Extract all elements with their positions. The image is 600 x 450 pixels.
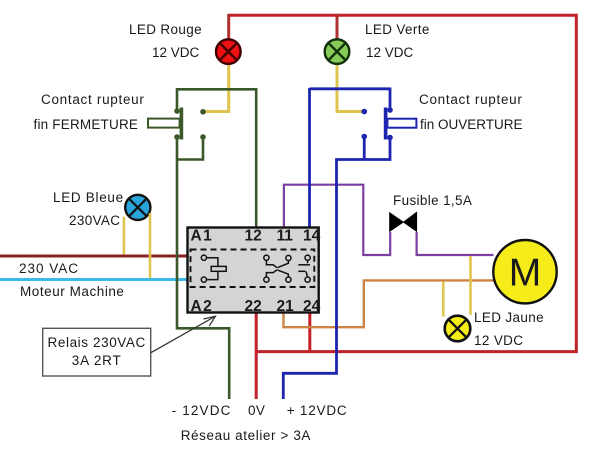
- LED Rouge (red indicator lamp): [216, 39, 241, 64]
- svg-text:LED Verte: LED Verte: [365, 22, 430, 37]
- wire: orange from relay pin 21 to motor: [284, 280, 495, 327]
- wire: blue left leg down to relay pin 14: [308, 88, 311, 228]
- wire: cyan motor neutral line: [0, 278, 188, 281]
- wire: red from relay pin 22 to 0V terminal: [255, 313, 258, 400]
- svg-text:A2: A2: [191, 298, 214, 315]
- switch S1 fin FERMETURE: green wiring box: [177, 88, 256, 228]
- wire: blue leg down to +12VDC terminal: [283, 160, 364, 400]
- svg-text:12 VDC: 12 VDC: [366, 45, 414, 60]
- wire: red stub to LED Verte: [336, 14, 339, 39]
- LED Verte (green indicator lamp): [325, 39, 350, 64]
- LED Jaune (yellow indicator lamp): [445, 316, 471, 342]
- svg-text:LED Jaune: LED Jaune: [474, 310, 544, 325]
- wire: blue right leg to top contact: [389, 88, 392, 111]
- svg-text:A1: A1: [191, 227, 214, 244]
- svg-text:12: 12: [245, 227, 262, 244]
- relay auxiliary contact: [298, 255, 310, 282]
- svg-text:Contact rupteur: Contact rupteur: [41, 92, 145, 107]
- wire: yellow LED Bleue to neutral line: [149, 213, 152, 278]
- wire: red stub to LED Rouge: [227, 14, 230, 39]
- wire: green top rail of FERMETURE box: [177, 88, 256, 91]
- wire: blue from bottom contacts joining rail: [363, 137, 366, 160]
- wire: purple from fuse to motor: [417, 232, 494, 255]
- relay annotation box: [43, 328, 151, 376]
- svg-text:LED Rouge: LED Rouge: [129, 22, 202, 37]
- svg-text:12 VDC: 12 VDC: [474, 333, 523, 348]
- wire: green right leg down to relay pin 12: [255, 88, 258, 228]
- svg-text:3A 2RT: 3A 2RT: [72, 353, 122, 368]
- svg-text:- 12VDC: - 12VDC: [172, 403, 232, 418]
- svg-text:0V: 0V: [248, 403, 265, 418]
- svg-text:+ 12VDC: + 12VDC: [287, 403, 348, 418]
- wire: dark red 230 VAC phase line: [0, 255, 188, 258]
- svg-text:fin OUVERTURE: fin OUVERTURE: [420, 117, 523, 132]
- wire: yellow LED Verte to OUVERTURE contact: [337, 64, 363, 112]
- wire: red +12V top bus: [229, 14, 577, 17]
- wire: red right-side vertical: [575, 14, 578, 352]
- switch S2 fin OUVERTURE: blue wiring box: [310, 88, 391, 160]
- motor M: [493, 240, 556, 303]
- svg-text:11: 11: [277, 227, 294, 244]
- LED Bleue (blue indicator lamp): [125, 195, 150, 220]
- switch S2 contact dots: [361, 107, 392, 140]
- wire: yellow drop from orange bus to LED Jaune: [442, 282, 445, 317]
- svg-text:24: 24: [303, 298, 321, 315]
- svg-text:Fusible 1,5A: Fusible 1,5A: [393, 193, 472, 208]
- relay K1 inner dashed box: [191, 250, 315, 288]
- svg-text:21: 21: [277, 298, 295, 315]
- svg-text:Contact rupteur: Contact rupteur: [419, 92, 523, 107]
- wire: yellow LED Rouge to FERMETURE contact: [205, 64, 229, 112]
- svg-text:230VAC: 230VAC: [69, 213, 120, 228]
- switch S1 actuator bar: [180, 108, 184, 140]
- wire: purple from relay pin 11 to fuse: [284, 185, 390, 255]
- wire: green leg down to -12VDC terminal: [177, 158, 229, 399]
- svg-text:12 VDC: 12 VDC: [152, 45, 200, 60]
- relay contact set (changeover): [264, 255, 291, 282]
- switch S1 contact dots: [174, 108, 206, 140]
- svg-text:230 VAC: 230 VAC: [19, 261, 79, 276]
- svg-text:22: 22: [245, 298, 262, 315]
- wire: red bottom 0V bus: [256, 350, 578, 353]
- wire: yellow LED Bleue to 230 VAC line: [123, 217, 126, 255]
- svg-text:LED Bleue: LED Bleue: [53, 190, 124, 205]
- svg-text:Réseau atelier > 3A: Réseau atelier > 3A: [181, 428, 311, 443]
- wire: green from bottom contacts joining rail: [176, 137, 179, 160]
- svg-text:fin FERMETURE: fin FERMETURE: [34, 117, 139, 132]
- relay coil symbol: [201, 255, 226, 282]
- relay K1 body: [188, 228, 319, 313]
- wire: yellow drop from purple bus to LED Jaune: [469, 256, 472, 315]
- wire: red from relay pin 24 to 0V bus: [308, 313, 311, 352]
- switch S2 actuator bar: [384, 108, 388, 140]
- svg-text:14: 14: [303, 227, 321, 244]
- svg-text:Moteur Machine: Moteur Machine: [20, 284, 125, 299]
- switch S2 actuator flag: [387, 119, 416, 128]
- svg-text:M: M: [509, 252, 542, 295]
- wire: green left leg to top contact: [176, 88, 179, 111]
- annotation arrow to relay: [151, 316, 216, 353]
- fuse F1 1,5A symbol: [389, 211, 417, 232]
- switch S1 actuator flag: [148, 119, 180, 128]
- wire: blue top rail of OUVERTURE box: [310, 87, 391, 90]
- svg-text:Relais 230VAC: Relais 230VAC: [48, 335, 146, 350]
